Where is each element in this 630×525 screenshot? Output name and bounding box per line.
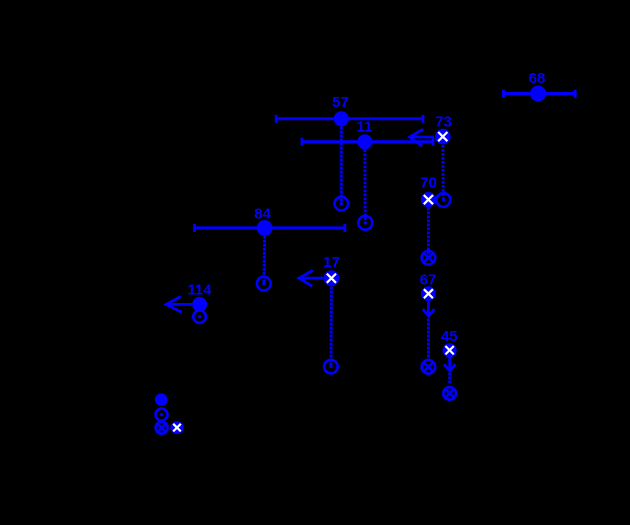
svg-text:68: 68: [529, 70, 546, 87]
svg-text:70: 70: [420, 175, 437, 192]
svg-text:67: 67: [420, 272, 437, 289]
svg-text:114: 114: [187, 282, 212, 299]
svg-text:45: 45: [441, 328, 458, 345]
svg-text:73: 73: [435, 114, 452, 131]
svg-text:11: 11: [357, 119, 373, 136]
svg-text:84: 84: [254, 205, 271, 222]
svg-text:17: 17: [323, 254, 340, 271]
svg-text:57: 57: [332, 94, 349, 111]
